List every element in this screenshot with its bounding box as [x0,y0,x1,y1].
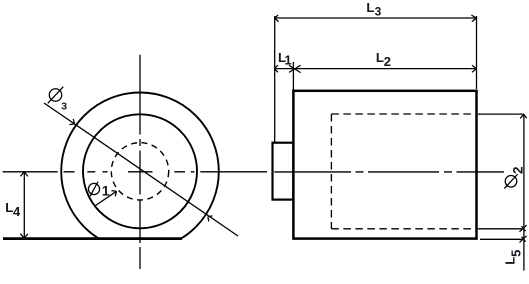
svg-text:1: 1 [284,53,291,68]
svg-text:4: 4 [13,204,21,219]
svg-text:1: 1 [102,182,110,198]
svg-text:3: 3 [61,100,67,112]
svg-text:L: L [366,0,374,15]
svg-text:2: 2 [384,54,391,69]
svg-text:2: 2 [511,166,526,174]
svg-text:L: L [376,50,384,65]
svg-text:3: 3 [375,4,382,18]
svg-text:5: 5 [509,250,524,257]
